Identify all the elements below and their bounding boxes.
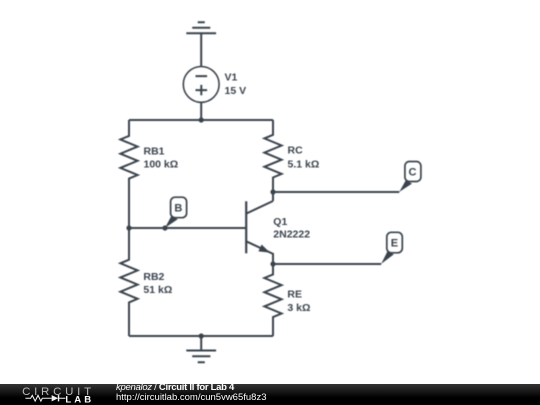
svg-text:Q1: Q1: [273, 216, 287, 228]
svg-text:B: B: [174, 203, 182, 215]
svg-text:15 V: 15 V: [225, 85, 247, 97]
svg-text:RE: RE: [287, 289, 302, 301]
svg-text:51 kΩ: 51 kΩ: [143, 284, 172, 296]
svg-text:2N2222: 2N2222: [273, 229, 310, 241]
svg-text:RC: RC: [288, 145, 304, 157]
svg-text:100 kΩ: 100 kΩ: [144, 159, 179, 171]
svg-text:V1: V1: [225, 72, 238, 84]
svg-text:LAB: LAB: [65, 394, 94, 405]
svg-text:C: C: [409, 167, 417, 179]
svg-text:RB2: RB2: [143, 271, 164, 283]
svg-text:E: E: [391, 238, 398, 250]
svg-text:3 kΩ: 3 kΩ: [287, 302, 310, 314]
svg-text:5.1 kΩ: 5.1 kΩ: [288, 158, 320, 170]
svg-text:RB1: RB1: [144, 145, 165, 157]
